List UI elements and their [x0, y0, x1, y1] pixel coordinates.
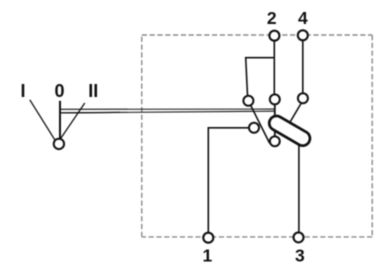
svg-text:II: II [88, 81, 98, 101]
lever position 0 stem [59, 101, 61, 139]
svg-text:3: 3 [295, 245, 305, 265]
contact D [249, 123, 259, 133]
lever position II stroke [61, 103, 85, 138]
linkage double line lower [61, 111, 275, 113]
wire T1 up and right to contact D [208, 128, 254, 238]
terminal 4 circle [298, 30, 308, 40]
wire branch from 2 to contact B [246, 58, 275, 100]
lever position I stroke [30, 100, 55, 140]
wire contact C to bridge [290, 101, 303, 123]
bridge contact capsule [277, 123, 303, 138]
contact C [298, 93, 308, 103]
svg-text:I: I [20, 81, 25, 101]
lever pivot circle [54, 139, 64, 149]
wire contact B to contact E [250, 104, 270, 143]
terminal 1 circle [203, 233, 213, 243]
contact B [243, 96, 253, 106]
wire T3 up to bridge [298, 138, 300, 237]
wire contact A to contact E [274, 100, 276, 142]
svg-text:4: 4 [298, 8, 308, 28]
contact E [270, 136, 280, 146]
contact A [270, 94, 280, 104]
enclosure dashed box [142, 35, 372, 237]
svg-text:1: 1 [203, 245, 213, 265]
linkage double line [60, 108, 275, 110]
wire T2 down to contact A [273, 36, 275, 99]
terminal 2 circle [269, 31, 279, 41]
wire T4 down to contact C [302, 35, 304, 98]
svg-text:2: 2 [267, 8, 277, 28]
terminal 3 circle [294, 232, 304, 242]
svg-text:0: 0 [54, 81, 64, 101]
